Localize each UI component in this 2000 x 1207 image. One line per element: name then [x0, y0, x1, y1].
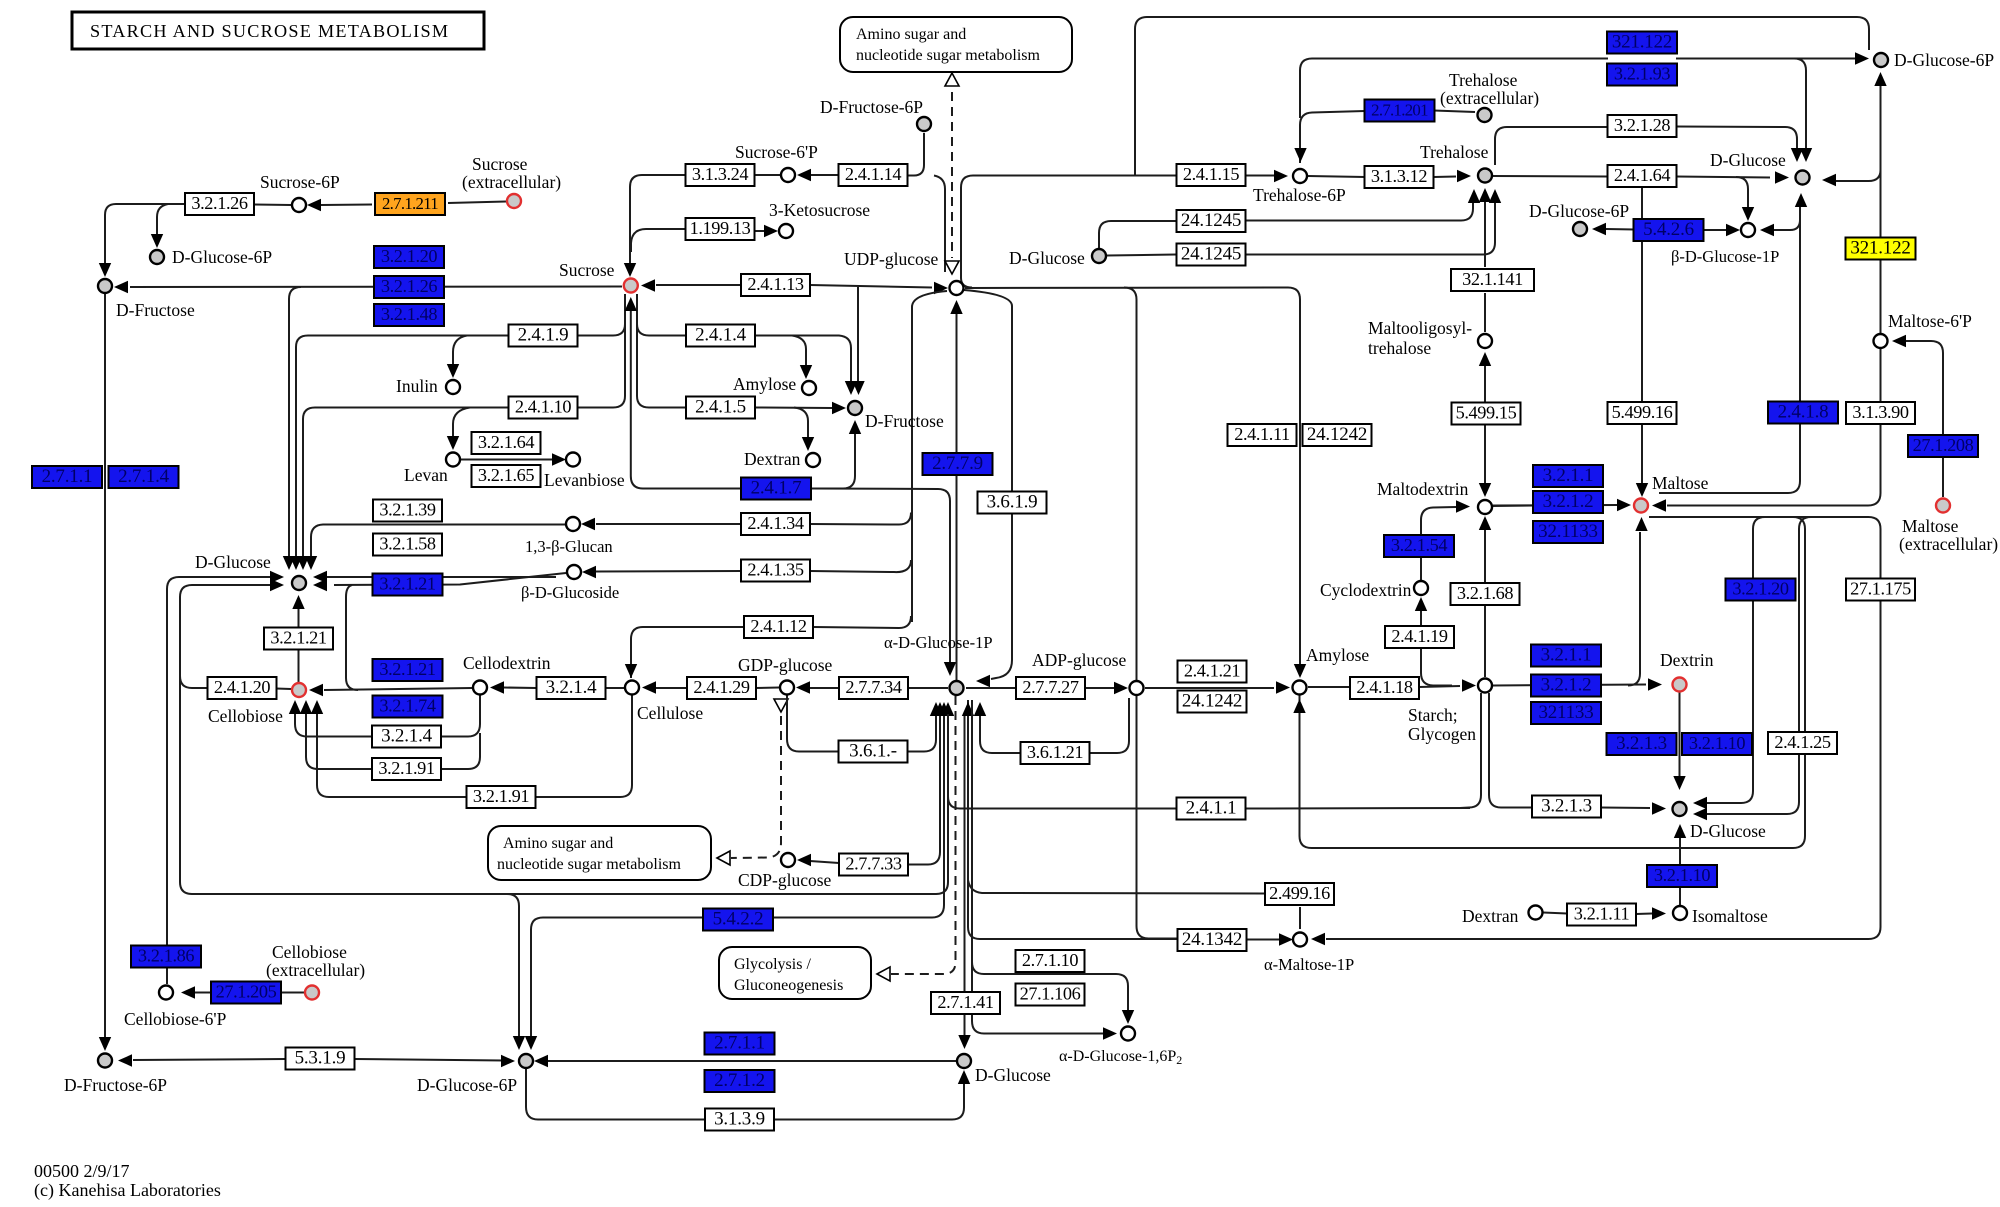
blue box 3.2.1.1 maltose stack	[1533, 465, 1603, 487]
blue box 3.2.1.1 dextrin stack	[1531, 645, 1601, 667]
arrowhead 2.4.1.7 into alpha-D-Glucose-1P top	[944, 662, 956, 676]
svg-text:27.1.205: 27.1.205	[216, 982, 277, 1002]
wire ADP-glucose to Amylose	[1145, 687, 1274, 689]
svg-text:2.4.1.25: 2.4.1.25	[1774, 732, 1830, 752]
blue box 3.2.1.21 glucoside	[373, 574, 443, 596]
wire Cellobiose extracellular to 2.7.1.205	[281, 992, 304, 994]
wire 3.2.1.54 to Cyclodextrin	[1420, 557, 1422, 580]
node UDP-glucose	[950, 281, 964, 295]
arrowhead into D-Fructose from below	[849, 420, 861, 434]
node Maltose extracellular	[1936, 499, 1950, 513]
wire D-Fructose down to D-Fructose-6P bottom	[104, 294, 106, 1038]
box 2.4.1.10	[509, 397, 578, 419]
wire top loop join	[1134, 160, 1136, 176]
box 2.7.7.27	[1016, 677, 1085, 699]
box 2.4.99.16	[1265, 883, 1334, 905]
arrowhead into Trehalose	[1457, 170, 1471, 182]
arrowhead into CDP-glucose	[797, 854, 811, 866]
wire Isomaltose up through 3.2.1.10	[1679, 888, 1681, 905]
svg-text:Cellulose: Cellulose	[637, 703, 703, 723]
svg-text:2.4.1.29: 2.4.1.29	[693, 677, 749, 697]
node ADP-glucose	[1130, 681, 1144, 695]
arrowhead into Maltose from below	[1635, 517, 1647, 531]
svg-text:2.4.1.13: 2.4.1.13	[747, 274, 803, 294]
svg-text:Maltose: Maltose	[1652, 473, 1709, 493]
wire 2.7.1.208 to Maltose extracellular	[1942, 457, 1944, 497]
pathway box Amino sugar and nucleotide sugar metabolism mid	[488, 826, 711, 880]
arrowhead into alpha-D-Glucose-1,6P2 top	[1122, 1010, 1134, 1024]
svg-text:2.4.1.18: 2.4.1.18	[1356, 677, 1412, 697]
svg-text:3.1.3.24: 3.1.3.24	[692, 164, 748, 184]
svg-text:3.2.1.86: 3.2.1.86	[138, 946, 194, 966]
svg-text:β-D-Glucoside: β-D-Glucoside	[521, 583, 619, 602]
svg-text:D-Glucose: D-Glucose	[975, 1065, 1051, 1085]
svg-text:D-Glucose: D-Glucose	[1710, 150, 1786, 170]
svg-text:Amylose: Amylose	[733, 374, 796, 394]
box 3.2.1.26 (sucrose-6P)	[185, 193, 254, 215]
svg-text:3.2.1.74: 3.2.1.74	[379, 696, 435, 716]
svg-text:00500 2/9/17: 00500 2/9/17	[34, 1161, 130, 1181]
svg-text:2.4.1.12: 2.4.1.12	[750, 616, 806, 636]
arrowhead 3.1.3.9 into D-Glucose bottom	[958, 1070, 970, 1084]
blue box 3.2.1.26 stack	[374, 276, 444, 298]
wire 3.6.1.9 vertical	[964, 290, 1012, 679]
box 3.2.1.65	[472, 465, 541, 487]
box 2.4.1.4	[686, 325, 755, 347]
wire alpha-D-glucose-16P2 vertical	[972, 700, 1103, 1034]
arrowhead into D-Glucose right from Isomaltose	[1674, 824, 1686, 838]
svg-text:D-Glucose-6P: D-Glucose-6P	[417, 1075, 517, 1095]
arrowhead second into D-Glucose right	[313, 571, 327, 583]
wire Starch right stub down to 3.2.1.3	[1489, 693, 1532, 808]
wire Starch to blue stack to Dextrin	[1493, 685, 1646, 686]
box 2.4.1.20	[208, 677, 277, 699]
wire Cellodextrin loop 3.2.1.4 to Cellobiose	[295, 695, 480, 737]
wire 3.2.1.141 up to Trehalose	[1484, 202, 1486, 267]
arrowhead into D-Glucose right (second)	[1693, 808, 1707, 820]
svg-text:24.1342: 24.1342	[1182, 929, 1242, 950]
arrowhead into Starch node	[1462, 679, 1476, 691]
wire Trehalose-6P to 3.1.3.12	[1308, 176, 1365, 177]
svg-text:UDP-glucose: UDP-glucose	[844, 249, 939, 269]
wire trehalose line left segment	[973, 175, 1176, 177]
box 5.4.99.16	[1608, 402, 1677, 424]
svg-text:2.7.7.34: 2.7.7.34	[845, 677, 901, 697]
wire 2.7.1.205 to Cellobiose-6P	[194, 992, 211, 994]
wire dashed glycolysis link	[891, 696, 956, 974]
box 2.4.1.34	[741, 513, 810, 535]
svg-text:321133: 321133	[1538, 702, 1593, 723]
open arrow below GDP-glucose	[774, 699, 788, 712]
wire 5.4.2.6 to beta-D-Glucose-1P	[1702, 229, 1726, 231]
node Dextrin	[1673, 678, 1687, 692]
arrowhead 3.6.1.21 into alpha-D-Glucose-1P	[974, 702, 986, 716]
box 2.4.1.245 row2	[1177, 244, 1246, 266]
box 3.2.1.39	[373, 500, 442, 522]
box 2.7.1.41	[931, 992, 1000, 1014]
box 3.2.1.4 loop	[372, 726, 441, 748]
node Sucrose extracellular	[507, 194, 521, 208]
arrowhead 3.6.1.9 into alpha-D-Glucose-1P	[976, 675, 990, 687]
wire trehalose main line	[1493, 175, 1608, 178]
node Sucrose	[624, 279, 638, 293]
svg-text:5.3.1.9: 5.3.1.9	[295, 1048, 346, 1069]
node D-Glucose-6P top-left	[150, 250, 164, 264]
wire Cellulose up to 2.4.1.12	[631, 627, 744, 678]
wire branch maltose line to blue 3.2.1.20	[1753, 517, 1765, 578]
wire Cellodextrin loop 3.2.1.91 to Cellobiose	[306, 713, 480, 769]
wire 5.4.2.6 to D-Glucose-6P second	[1606, 228, 1635, 231]
wire 2.4.1.8 to Maltose line	[1659, 424, 1800, 493]
pathway box Amino sugar and nucleotide sugar metabolism top	[840, 17, 1072, 72]
wire 2.4.1.20 to Cellobiose	[276, 688, 291, 691]
wire 3.6.1.21 to ADP-glucose	[1090, 698, 1129, 753]
wire 2.4.1.15 to Trehalose-6P	[1246, 175, 1274, 177]
box 3.2.1.21 white	[264, 628, 333, 650]
box 2.4.1.19	[1385, 626, 1454, 648]
wire D-Glucose mid to 24.1.245 row1	[1099, 221, 1176, 248]
svg-text:Cellodextrin: Cellodextrin	[463, 653, 551, 673]
blue box 2.7.1.205	[211, 982, 281, 1004]
svg-text:32.1.141: 32.1.141	[1462, 269, 1523, 289]
wire 2.4.1.5 to D-Fructose mid	[755, 407, 832, 410]
arrowhead into Maltooligosyltrehalose	[1479, 352, 1491, 366]
arrowhead into Amylose left	[1276, 681, 1290, 693]
blue box 2.7.1.1 left	[32, 466, 102, 488]
svg-text:3.1.3.12: 3.1.3.12	[1371, 166, 1427, 186]
open arrow into amino sugar box	[717, 851, 730, 865]
svg-text:32.1133: 32.1133	[1538, 521, 1598, 542]
svg-text:3.2.1.28: 3.2.1.28	[1614, 115, 1670, 135]
arrowhead into D-Glucose right from Dextrin	[1673, 776, 1685, 790]
wire 2.4.1.19 down join starch line	[1421, 649, 1452, 686]
svg-text:3.6.1.9: 3.6.1.9	[987, 492, 1038, 513]
box 3.1.3.90	[1846, 402, 1915, 424]
wire Cellobiose-6P to D-Glucose left via 3.2.1.86	[167, 577, 270, 984]
svg-text:3.2.1.3: 3.2.1.3	[1541, 796, 1592, 817]
box 2.4.1.242 top	[1303, 424, 1372, 446]
node Levanbiose	[566, 453, 580, 467]
svg-text:β-D-Glucose-1P: β-D-Glucose-1P	[1671, 247, 1779, 266]
svg-text:Amylose: Amylose	[1306, 645, 1369, 665]
wire b-D-Glucoside line to D-Glucose	[334, 573, 566, 585]
box 2.7.1.175	[1846, 579, 1915, 601]
wire 2.4.99.16 line	[968, 700, 1178, 939]
arrowhead 3.2.1.86 into D-Glucose left	[270, 571, 284, 583]
wire blue stack to Maltose	[1493, 504, 1618, 507]
blue box 2.7.7.9	[923, 453, 993, 475]
wire 2.4.1.12 up into UDP bus	[813, 616, 911, 628]
wire branch to Inulin	[453, 336, 467, 366]
blue box 5.4.2.6	[1634, 219, 1704, 241]
svg-text:D-Glucose-6P: D-Glucose-6P	[172, 247, 272, 267]
node Maltooligosyltrehalose	[1478, 334, 1492, 348]
svg-text:2.7.7.27: 2.7.7.27	[1022, 677, 1078, 697]
node alpha-D-Glucose-1P	[950, 681, 964, 695]
arrowhead row1 into Trehalose	[1468, 189, 1480, 203]
arrowhead into D-Glucose top left	[1775, 171, 1789, 183]
wire Sucrose-6P to 3.1.3.24	[755, 174, 780, 176]
svg-text:2.4.1.15: 2.4.1.15	[1183, 164, 1239, 184]
wire UDP bus vertical	[912, 291, 947, 622]
arrowhead 3.2.1.68 into Maltodextrin	[1479, 516, 1491, 530]
arrowhead into D-Glucose right from 3.2.1.3	[1652, 802, 1666, 814]
wire 2.4.99.16 down to alpha-Maltose-1P	[1299, 907, 1301, 929]
wire 3.2.1.28 to D-Glucose	[1676, 127, 1797, 149]
wire Levan to Levanbiose	[461, 459, 552, 461]
node Amylose mid	[1293, 681, 1307, 695]
arrowhead into Dextrin	[1648, 678, 1662, 690]
blue box 2.7.1.1 bottom	[705, 1033, 775, 1055]
wire UDP-glucose right to Amylose via 2.4.1.11	[965, 288, 1300, 666]
wire 5.4.99.15 down to Maltodextrin	[1484, 424, 1486, 484]
node Dextran top	[806, 453, 820, 467]
svg-text:2.4.1.64: 2.4.1.64	[1614, 165, 1670, 185]
wire 2.7.7.33 up to alpha-D-Glucose-1P	[908, 716, 940, 865]
arrowhead into ADP-glucose	[1114, 682, 1128, 694]
wire 5.4.2.2 left down to D-Glucose-6P bottom	[531, 918, 702, 1037]
open arrow down near UDP-glucose	[945, 261, 959, 274]
svg-text:3.2.1.68: 3.2.1.68	[1457, 583, 1513, 603]
arrowhead into GDP-glucose	[796, 681, 810, 693]
wire 3.2.1.3 to D-Glucose right	[1601, 807, 1650, 810]
wire b-D-Glucoside to 2.4.1.35	[596, 570, 741, 573]
wire Dextrin down to D-Glucose right	[1679, 692, 1681, 776]
svg-text:2.4.1.9: 2.4.1.9	[518, 325, 569, 346]
node D-Fructose-6P bottom	[98, 1054, 112, 1068]
svg-text:3.6.1.21: 3.6.1.21	[1027, 742, 1083, 762]
wire 3.2.1.68 up to Maltodextrin	[1484, 529, 1486, 583]
svg-text:Maltose-6'P: Maltose-6'P	[1888, 311, 1972, 331]
node D-Glucose bottom	[957, 1054, 971, 1068]
box 2.4.1.5	[686, 397, 755, 419]
pathway box Glycolysis Gluconeogenesis	[719, 947, 871, 999]
arrowhead into beta-D-Glucose-1P left	[1726, 224, 1740, 236]
box 1.1.99.13	[686, 218, 755, 240]
svg-text:Glycolysis /: Glycolysis /	[734, 956, 811, 973]
blue box 3.2.1.2 dextrin stack	[1531, 675, 1601, 697]
wire Starch left stub down to 3.2.1.3 line	[1460, 693, 1481, 808]
svg-text:Gluconeogenesis: Gluconeogenesis	[734, 977, 843, 994]
arrowhead into beta-D-Glucose-1P right	[1760, 224, 1774, 236]
wire 2.7.7.27 to alpha-D-Glucose-1P	[966, 687, 1016, 689]
wire Dextran bottom to 3.2.1.11	[1543, 913, 1567, 914]
svg-text:3.2.1.21: 3.2.1.21	[379, 574, 435, 594]
arrowhead into Amylose from top	[1294, 664, 1306, 678]
svg-text:Cellobiose: Cellobiose	[272, 942, 347, 962]
blue box 3.2.1.74	[373, 696, 443, 718]
wire 2.7.1.41 vertical	[964, 716, 966, 1035]
wire yellow 3.2.1.122 vertical up to D-Glucose-6P	[1880, 86, 1882, 238]
wire branch y894 to 2.4.1.20	[180, 676, 208, 688]
box 3.2.1.4 cellodextrin	[537, 677, 606, 699]
arrowhead into Cyclodextrin	[1415, 597, 1427, 611]
arrowhead into Sucrose (left)	[641, 279, 655, 291]
arrowhead 1,3-b-Glucan into D-Glucose	[305, 556, 317, 570]
box 2.4.1.13	[741, 274, 810, 296]
box 3.6.1.-	[839, 741, 908, 763]
svg-text:Cyclodextrin: Cyclodextrin	[1320, 580, 1412, 600]
wire 2.4.1.1 to 3.2.1.3 segment	[1246, 807, 1470, 810]
arrowhead into Sucrose-6P (right)	[797, 169, 811, 181]
node Sucrose-6P	[292, 198, 306, 212]
svg-text:2.4.1.21: 2.4.1.21	[1184, 661, 1240, 681]
svg-text:Starch;: Starch;	[1408, 705, 1458, 725]
arrowhead into D-Fructose from above	[99, 263, 111, 277]
wire 3.2.1.141 down to Maltooligosyltrehalose	[1484, 293, 1486, 332]
wire 3.2.1.68 down to Starch	[1484, 605, 1486, 677]
svg-text:3.2.1.91: 3.2.1.91	[473, 786, 529, 806]
arrowhead into 1,3-b-Glucan	[581, 518, 595, 530]
box 3.1.3.12	[1365, 166, 1434, 188]
svg-text:3.2.1.21: 3.2.1.21	[270, 628, 326, 648]
arrowhead into UDP-glucose	[934, 282, 948, 294]
node Cellulose	[625, 681, 639, 695]
wire GDP-glucose dashed to amino sugar	[731, 716, 781, 858]
node Trehalose-6P	[1293, 169, 1307, 183]
arrowhead 3.2.1.141 into Trehalose	[1479, 188, 1491, 202]
node D-Glucose-6P second	[1573, 222, 1587, 236]
wire GDP-glucose to 2.4.1.29	[755, 687, 779, 690]
blue box 2.7.1.208	[1908, 435, 1978, 457]
svg-text:1,3-β-Glucan: 1,3-β-Glucan	[525, 537, 613, 556]
box 2.4.1.1	[1177, 798, 1246, 820]
box 2.4.1.21	[1178, 661, 1247, 683]
node Cyclodextrin	[1414, 581, 1428, 595]
svg-text:2.4.1.10: 2.4.1.10	[515, 397, 571, 417]
svg-text:2.4.1.14: 2.4.1.14	[845, 164, 901, 184]
node D-Glucose top-right	[1796, 171, 1810, 185]
node alpha-Maltose-1P	[1293, 933, 1307, 947]
blue box 2.4.1.7	[741, 478, 811, 500]
arrowhead into Amylose from below	[1293, 699, 1305, 713]
node Maltose-6P	[1874, 334, 1888, 348]
box 2.4.1.35	[741, 560, 810, 582]
arrowhead into Levanbiose	[552, 453, 566, 465]
svg-text:D-Fructose: D-Fructose	[865, 411, 944, 431]
wire 3.2.1.122 line to D-Glucose-6P	[1676, 58, 1855, 60]
svg-text:2.7.1.2: 2.7.1.2	[714, 1070, 765, 1091]
arrowhead into D-Glucose-6P from below	[1874, 72, 1886, 86]
blue box 2.7.1.2 bottom	[705, 1070, 775, 1092]
blue box 5.4.2.2	[703, 909, 773, 931]
arrowhead into Maltodextrin top	[1479, 483, 1491, 497]
arrowhead loop2 into Cellobiose	[300, 700, 312, 714]
arrowhead 2.4.1.9 into D-Glucose	[290, 556, 302, 570]
svg-text:5.499.15: 5.499.15	[1456, 403, 1517, 423]
svg-text:2.7.1.201: 2.7.1.201	[1371, 101, 1428, 120]
box 2.7.7.34	[839, 677, 908, 699]
wire trehalose line corner down to UDP line	[961, 176, 973, 288]
arrowhead right into D-Fructose mid	[832, 402, 846, 414]
wire branch y894 down to D-Glucose-6P bottom	[507, 894, 519, 1036]
svg-text:(extracellular): (extracellular)	[266, 960, 365, 980]
arrowhead into alpha-Maltose-1P right	[1311, 933, 1325, 945]
arrowhead into Cellobiose right	[309, 684, 323, 696]
wire blue 3.2.1.20 down to D-Glucose right	[1706, 601, 1753, 803]
wire 2.7.1.208 up to Maltose-6P	[1906, 341, 1943, 435]
blue box 3.2.1.54	[1384, 535, 1454, 557]
box 3.2.1.3 white	[1532, 796, 1601, 818]
blue box 3.2.1.2 maltose stack	[1533, 491, 1603, 513]
svg-text:2.4.1.20: 2.4.1.20	[214, 677, 270, 697]
svg-text:Cellobiose: Cellobiose	[208, 706, 283, 726]
wire D-Glucose mid to 24.1.245 row2	[1107, 255, 1176, 256]
svg-text:5.4.2.6: 5.4.2.6	[1643, 219, 1694, 240]
open arrow into glycolysis box	[877, 967, 890, 981]
box 3.2.1.91 loop2	[467, 786, 536, 808]
wire 2.4.1.10 line to D-Glucose	[303, 408, 508, 557]
svg-text:3.2.1.54: 3.2.1.54	[1391, 535, 1447, 555]
node beta-D-Glucose-1P	[1741, 223, 1755, 237]
node D-Fructose mid	[848, 401, 862, 415]
svg-text:Maltose: Maltose	[1902, 516, 1959, 536]
svg-text:Dextrin: Dextrin	[1660, 650, 1714, 670]
wire 2.4.1.18 to Starch	[1419, 686, 1460, 687]
svg-text:3.2.1.21: 3.2.1.21	[379, 659, 435, 679]
wire 2.4.1.14 to Sucrose-6P	[800, 174, 839, 176]
box 2.4.1.12	[744, 616, 813, 638]
node D-Glucose right	[1673, 802, 1687, 816]
svg-text:2.4.1.7: 2.4.1.7	[751, 478, 802, 499]
wire branch down ADP line to 24.1342	[1124, 288, 1178, 939]
svg-text:2.4.1.11: 2.4.1.11	[1234, 424, 1290, 444]
svg-text:3.2.1.10: 3.2.1.10	[1689, 733, 1745, 753]
wire branch down to beta-D-Glucose-1P	[1736, 177, 1748, 209]
wire 3.2.1.4 to Cellodextrin	[504, 687, 536, 690]
blue box 3.2.1.21 cellobiose	[373, 659, 443, 681]
arrowhead into D-Glucose-6P second	[1592, 223, 1606, 235]
svg-text:Dextran: Dextran	[744, 449, 801, 469]
wire 3.2.1.122 line segment left	[1312, 58, 1608, 60]
svg-text:CDP-glucose: CDP-glucose	[738, 870, 832, 890]
wire 5.4.99.16 down to Maltose	[1641, 424, 1643, 484]
arrowhead into D-Fructose mid (right)	[852, 381, 864, 395]
svg-text:Sucrose-6P: Sucrose-6P	[260, 172, 340, 192]
arrowhead loop1 into Cellobiose	[289, 700, 301, 714]
node D-Glucose mid	[1092, 249, 1106, 263]
arrowhead into 3-Ketosucrose	[764, 225, 778, 237]
arrowhead into D-Glucose bottom from above	[958, 1035, 970, 1049]
box 2.4.1.15	[1177, 164, 1246, 186]
node Trehalose extracellular	[1478, 108, 1492, 122]
wire Amylose to 2.4.1.18	[1308, 686, 1350, 688]
arrowhead into Dextran top	[802, 437, 814, 451]
node alpha-D-Glucose-1,6P2	[1121, 1027, 1135, 1041]
arrowhead y894 line into D-Glucose left	[270, 579, 284, 591]
svg-text:321.122: 321.122	[1850, 238, 1910, 259]
wire 3.1.3.9 loop	[526, 1069, 964, 1120]
wire 5.4.2.2 line	[774, 714, 944, 918]
svg-text:27.1.175: 27.1.175	[1850, 579, 1911, 599]
svg-text:D-Glucose: D-Glucose	[1009, 248, 1085, 268]
wire branch giant vertical to D-Glucose right	[1836, 170, 1881, 181]
wire branch to D-Glucose-6P top-left	[157, 204, 168, 237]
wire 2.4.1.8 up to D-Glucose top	[1799, 207, 1801, 401]
wire 2.4.1.9 line to D-Glucose	[296, 336, 508, 557]
node Cellobiose-6P	[159, 986, 173, 1000]
node D-Glucose left	[292, 576, 306, 590]
svg-text:3.2.1.91: 3.2.1.91	[378, 758, 434, 778]
wire 2.4.1.1 line	[948, 714, 1176, 809]
svg-text:2.7.1.1: 2.7.1.1	[714, 1033, 765, 1054]
svg-text:STARCH AND SUCROSE METABOLISM: STARCH AND SUCROSE METABOLISM	[90, 21, 449, 41]
svg-text:2.7.7.33: 2.7.7.33	[845, 854, 901, 874]
node D-Glucose-6P bottom	[519, 1054, 533, 1068]
svg-text:2.4.1.1: 2.4.1.1	[1186, 798, 1237, 819]
svg-text:2.7.7.9: 2.7.7.9	[932, 453, 983, 474]
wire branch 2.4.1.5 to Dextran	[794, 408, 808, 439]
